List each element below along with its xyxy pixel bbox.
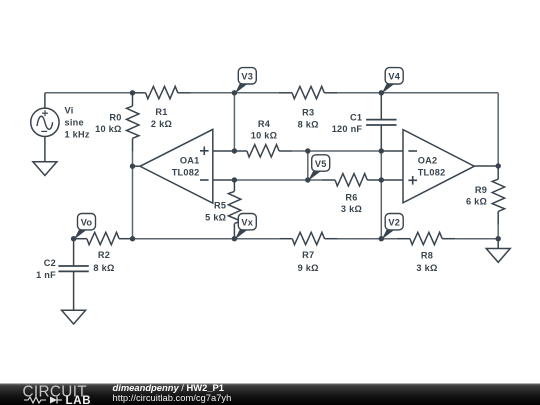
svg-text:V5: V5: [315, 159, 327, 169]
svg-text:http://circuitlab.com/cg7a7yh: http://circuitlab.com/cg7a7yh: [113, 392, 232, 403]
svg-text:TL082: TL082: [172, 168, 200, 178]
svg-text:Vo: Vo: [81, 218, 93, 228]
svg-text:LAB: LAB: [66, 395, 92, 405]
svg-text:V2: V2: [388, 218, 400, 228]
svg-text:120 nF: 120 nF: [332, 124, 363, 134]
svg-text:R7: R7: [302, 250, 314, 260]
svg-text:1 kHz: 1 kHz: [65, 129, 90, 139]
svg-text:OA2: OA2: [418, 156, 438, 166]
svg-text:1 nF: 1 nF: [36, 270, 56, 280]
svg-text:OA1: OA1: [180, 155, 200, 165]
svg-text:TL082: TL082: [418, 167, 446, 177]
svg-text:R2: R2: [98, 250, 110, 260]
svg-text:10 kΩ: 10 kΩ: [251, 130, 278, 140]
svg-text:R6: R6: [345, 192, 357, 202]
svg-text:Vi: Vi: [65, 105, 74, 115]
svg-text:R4: R4: [258, 119, 271, 129]
svg-text:R1: R1: [155, 107, 167, 117]
svg-text:3 kΩ: 3 kΩ: [416, 263, 437, 273]
svg-text:10 kΩ: 10 kΩ: [95, 124, 122, 134]
svg-text:9 kΩ: 9 kΩ: [298, 263, 319, 273]
svg-text:6 kΩ: 6 kΩ: [466, 197, 487, 207]
svg-text:V4: V4: [388, 72, 400, 82]
svg-text:C2: C2: [44, 258, 56, 268]
svg-text:Vx: Vx: [241, 218, 253, 228]
svg-text:R5: R5: [214, 201, 226, 211]
svg-text:3 kΩ: 3 kΩ: [341, 204, 362, 214]
svg-text:2 kΩ: 2 kΩ: [151, 119, 172, 129]
svg-text:8 kΩ: 8 kΩ: [298, 120, 319, 130]
svg-text:sine: sine: [65, 118, 84, 128]
svg-text:5 kΩ: 5 kΩ: [205, 213, 226, 223]
svg-text:R9: R9: [475, 185, 487, 195]
svg-text:8 kΩ: 8 kΩ: [93, 263, 114, 273]
svg-text:R3: R3: [302, 108, 314, 118]
svg-text:R0: R0: [109, 112, 121, 122]
svg-text:C1: C1: [350, 112, 362, 122]
svg-text:V3: V3: [241, 72, 253, 82]
svg-text:R8: R8: [421, 251, 433, 261]
